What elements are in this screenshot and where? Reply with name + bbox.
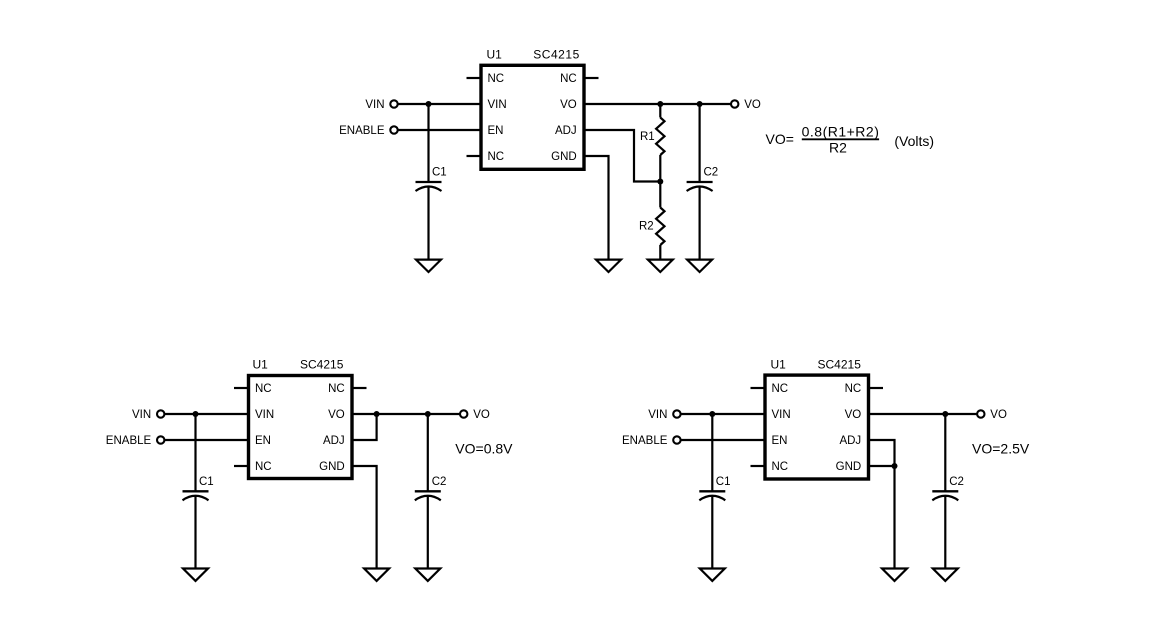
- svg-text:EN: EN: [772, 435, 788, 447]
- svg-text:NC: NC: [560, 73, 577, 85]
- wire VO pin to VO terminal: [352, 413, 460, 415]
- svg-text:VIN: VIN: [648, 409, 667, 421]
- pin stub NC right top: [584, 77, 599, 79]
- op-amp U1 (SC4215 regulator IC box): [249, 376, 353, 479]
- op-amp U1 (SC4215 regulator IC box): [765, 375, 869, 479]
- wire ADJ up to VO: [352, 414, 377, 440]
- capacitor C2: [415, 491, 441, 500]
- svg-text:VO: VO: [328, 409, 345, 421]
- capacitor C2: [932, 491, 958, 500]
- wire C1 to ground: [194, 496, 196, 568]
- junction VO/C2: [425, 411, 431, 417]
- wire VIN terminal to VIN pin: [681, 413, 765, 415]
- op-amp U1 (SC4215 regulator IC box): [481, 65, 584, 169]
- pin stub NC left bottom: [467, 155, 482, 157]
- svg-text:VO: VO: [990, 409, 1007, 421]
- junction VIN/C1: [193, 411, 199, 417]
- wire ENABLE terminal to EN pin: [681, 439, 765, 441]
- svg-text:GND: GND: [551, 151, 577, 163]
- svg-text:VIN: VIN: [255, 409, 274, 421]
- wire R2 to ground: [659, 245, 661, 260]
- ground below C2: [687, 260, 712, 272]
- junction VIN/C1: [709, 411, 715, 417]
- svg-text:ENABLE: ENABLE: [106, 435, 152, 447]
- svg-text:SC4215: SC4215: [818, 358, 862, 372]
- wire VO junction down to C2: [698, 104, 700, 182]
- wire ADJ down to ground: [869, 440, 895, 569]
- pin stub NC left top: [234, 387, 249, 389]
- svg-text:C1: C1: [432, 167, 447, 179]
- terminal VO: [977, 410, 984, 417]
- wire C1 to ground: [427, 187, 429, 260]
- svg-text:SC4215: SC4215: [533, 48, 580, 62]
- svg-text:C1: C1: [199, 476, 214, 488]
- wire VIN junction down to C1: [711, 414, 713, 491]
- wire GND pin to ADJ net: [869, 465, 895, 467]
- svg-text:NC: NC: [772, 461, 789, 473]
- wire C1 to ground: [711, 496, 713, 568]
- terminal ENABLE: [157, 436, 164, 443]
- svg-text:VO: VO: [744, 99, 761, 111]
- resistor R1: [656, 118, 664, 156]
- svg-text:VO: VO: [473, 409, 490, 421]
- svg-text:C2: C2: [949, 476, 964, 488]
- svg-text:C2: C2: [432, 476, 447, 488]
- wire C2 to ground: [944, 496, 946, 568]
- svg-text:NC: NC: [255, 383, 272, 395]
- wire R1 to R1/R2 junction: [659, 155, 661, 182]
- terminal ENABLE: [673, 436, 680, 443]
- capacitor C1: [183, 491, 209, 500]
- ground below C2: [933, 569, 958, 581]
- svg-text:VIN: VIN: [772, 409, 791, 421]
- svg-text:ADJ: ADJ: [839, 435, 861, 447]
- ground below C1: [416, 260, 441, 272]
- svg-text:(Volts): (Volts): [894, 133, 934, 149]
- terminal VO: [731, 100, 738, 107]
- ground below GND pin: [596, 260, 621, 272]
- svg-text:NC: NC: [328, 383, 345, 395]
- pin stub NC left top: [751, 387, 766, 389]
- wire GND pin down to ground: [584, 156, 609, 260]
- svg-text:VO=0.8V: VO=0.8V: [455, 441, 513, 457]
- ground below R2: [648, 260, 673, 272]
- svg-text:NC: NC: [488, 151, 505, 163]
- pin stub NC left top: [467, 77, 482, 79]
- svg-text:NC: NC: [772, 383, 789, 395]
- svg-text:SC4215: SC4215: [300, 358, 344, 372]
- svg-text:ENABLE: ENABLE: [339, 125, 385, 137]
- junction VO/C2: [697, 101, 703, 107]
- wire ENABLE terminal to EN pin: [398, 129, 481, 131]
- wire ADJ to R1/R2 junction: [584, 130, 660, 182]
- svg-text:GND: GND: [836, 461, 862, 473]
- terminal VIN: [390, 100, 397, 107]
- svg-text:VO: VO: [845, 409, 862, 421]
- wire VIN terminal to VIN pin: [164, 413, 248, 415]
- capacitor C1: [699, 491, 725, 500]
- wire VIN junction down to C1: [194, 414, 196, 491]
- svg-text:VO: VO: [560, 99, 577, 111]
- terminal ENABLE: [390, 126, 397, 133]
- wire VO junction to R1: [659, 104, 661, 118]
- ground below C1: [183, 569, 208, 581]
- svg-text:NC: NC: [255, 461, 272, 473]
- svg-text:ADJ: ADJ: [555, 125, 577, 137]
- wire ENABLE terminal to EN pin: [164, 439, 248, 441]
- svg-text:VIN: VIN: [132, 409, 151, 421]
- junction VO/ADJ: [374, 411, 380, 417]
- wire VO junction down to C2: [427, 414, 429, 491]
- junction R1/R2/ADJ: [657, 179, 663, 185]
- svg-text:NC: NC: [488, 73, 505, 85]
- wire C2 to ground: [698, 187, 700, 260]
- formula fraction bar: [802, 138, 879, 140]
- svg-text:VO=: VO=: [766, 131, 794, 147]
- wire C2 to ground: [427, 496, 429, 568]
- terminal VIN: [157, 410, 164, 417]
- wire VO junction down to C2: [944, 414, 946, 491]
- pin stub NC left bottom: [751, 465, 766, 467]
- svg-text:U1: U1: [771, 358, 787, 372]
- wire VIN terminal to VIN pin: [398, 103, 481, 105]
- svg-text:R1: R1: [640, 131, 655, 143]
- ground below C1: [700, 569, 725, 581]
- svg-text:R2: R2: [639, 221, 654, 233]
- pin stub NC right top: [869, 387, 884, 389]
- svg-text:C2: C2: [704, 167, 719, 179]
- terminal VO: [460, 410, 467, 417]
- pin stub NC right top: [352, 387, 367, 389]
- ground below GND pin: [364, 569, 389, 581]
- svg-text:VIN: VIN: [488, 99, 507, 111]
- capacitor C1: [416, 182, 442, 191]
- svg-text:GND: GND: [319, 461, 345, 473]
- junction VIN/C1: [426, 101, 432, 107]
- wire junction to R2: [659, 182, 661, 208]
- ground below C2: [415, 569, 440, 581]
- svg-text:EN: EN: [255, 435, 271, 447]
- wire VO pin to VO terminal: [869, 413, 978, 415]
- svg-text:NC: NC: [845, 383, 862, 395]
- junction VO/R1: [657, 101, 663, 107]
- junction VO/C2: [942, 411, 948, 417]
- svg-text:ENABLE: ENABLE: [622, 435, 668, 447]
- terminal VIN: [673, 410, 680, 417]
- junction ADJ/GND: [892, 463, 898, 469]
- svg-text:ADJ: ADJ: [323, 435, 345, 447]
- svg-text:VO=2.5V: VO=2.5V: [972, 441, 1030, 457]
- resistor R2: [656, 208, 664, 246]
- svg-text:C1: C1: [716, 476, 731, 488]
- svg-text:U1: U1: [253, 358, 269, 372]
- svg-text:EN: EN: [488, 125, 504, 137]
- svg-text:0.8(R1+R2): 0.8(R1+R2): [802, 123, 880, 139]
- capacitor C2: [687, 182, 713, 191]
- pin stub NC left bottom: [234, 465, 249, 467]
- ground below ADJ/GND: [882, 569, 907, 581]
- wire GND pin down to ground: [352, 466, 377, 569]
- svg-text:R2: R2: [829, 139, 847, 155]
- wire VIN junction down to C1: [427, 104, 429, 182]
- svg-text:U1: U1: [487, 48, 503, 62]
- wire VO pin to VO terminal: [584, 103, 731, 105]
- svg-text:VIN: VIN: [365, 99, 384, 111]
